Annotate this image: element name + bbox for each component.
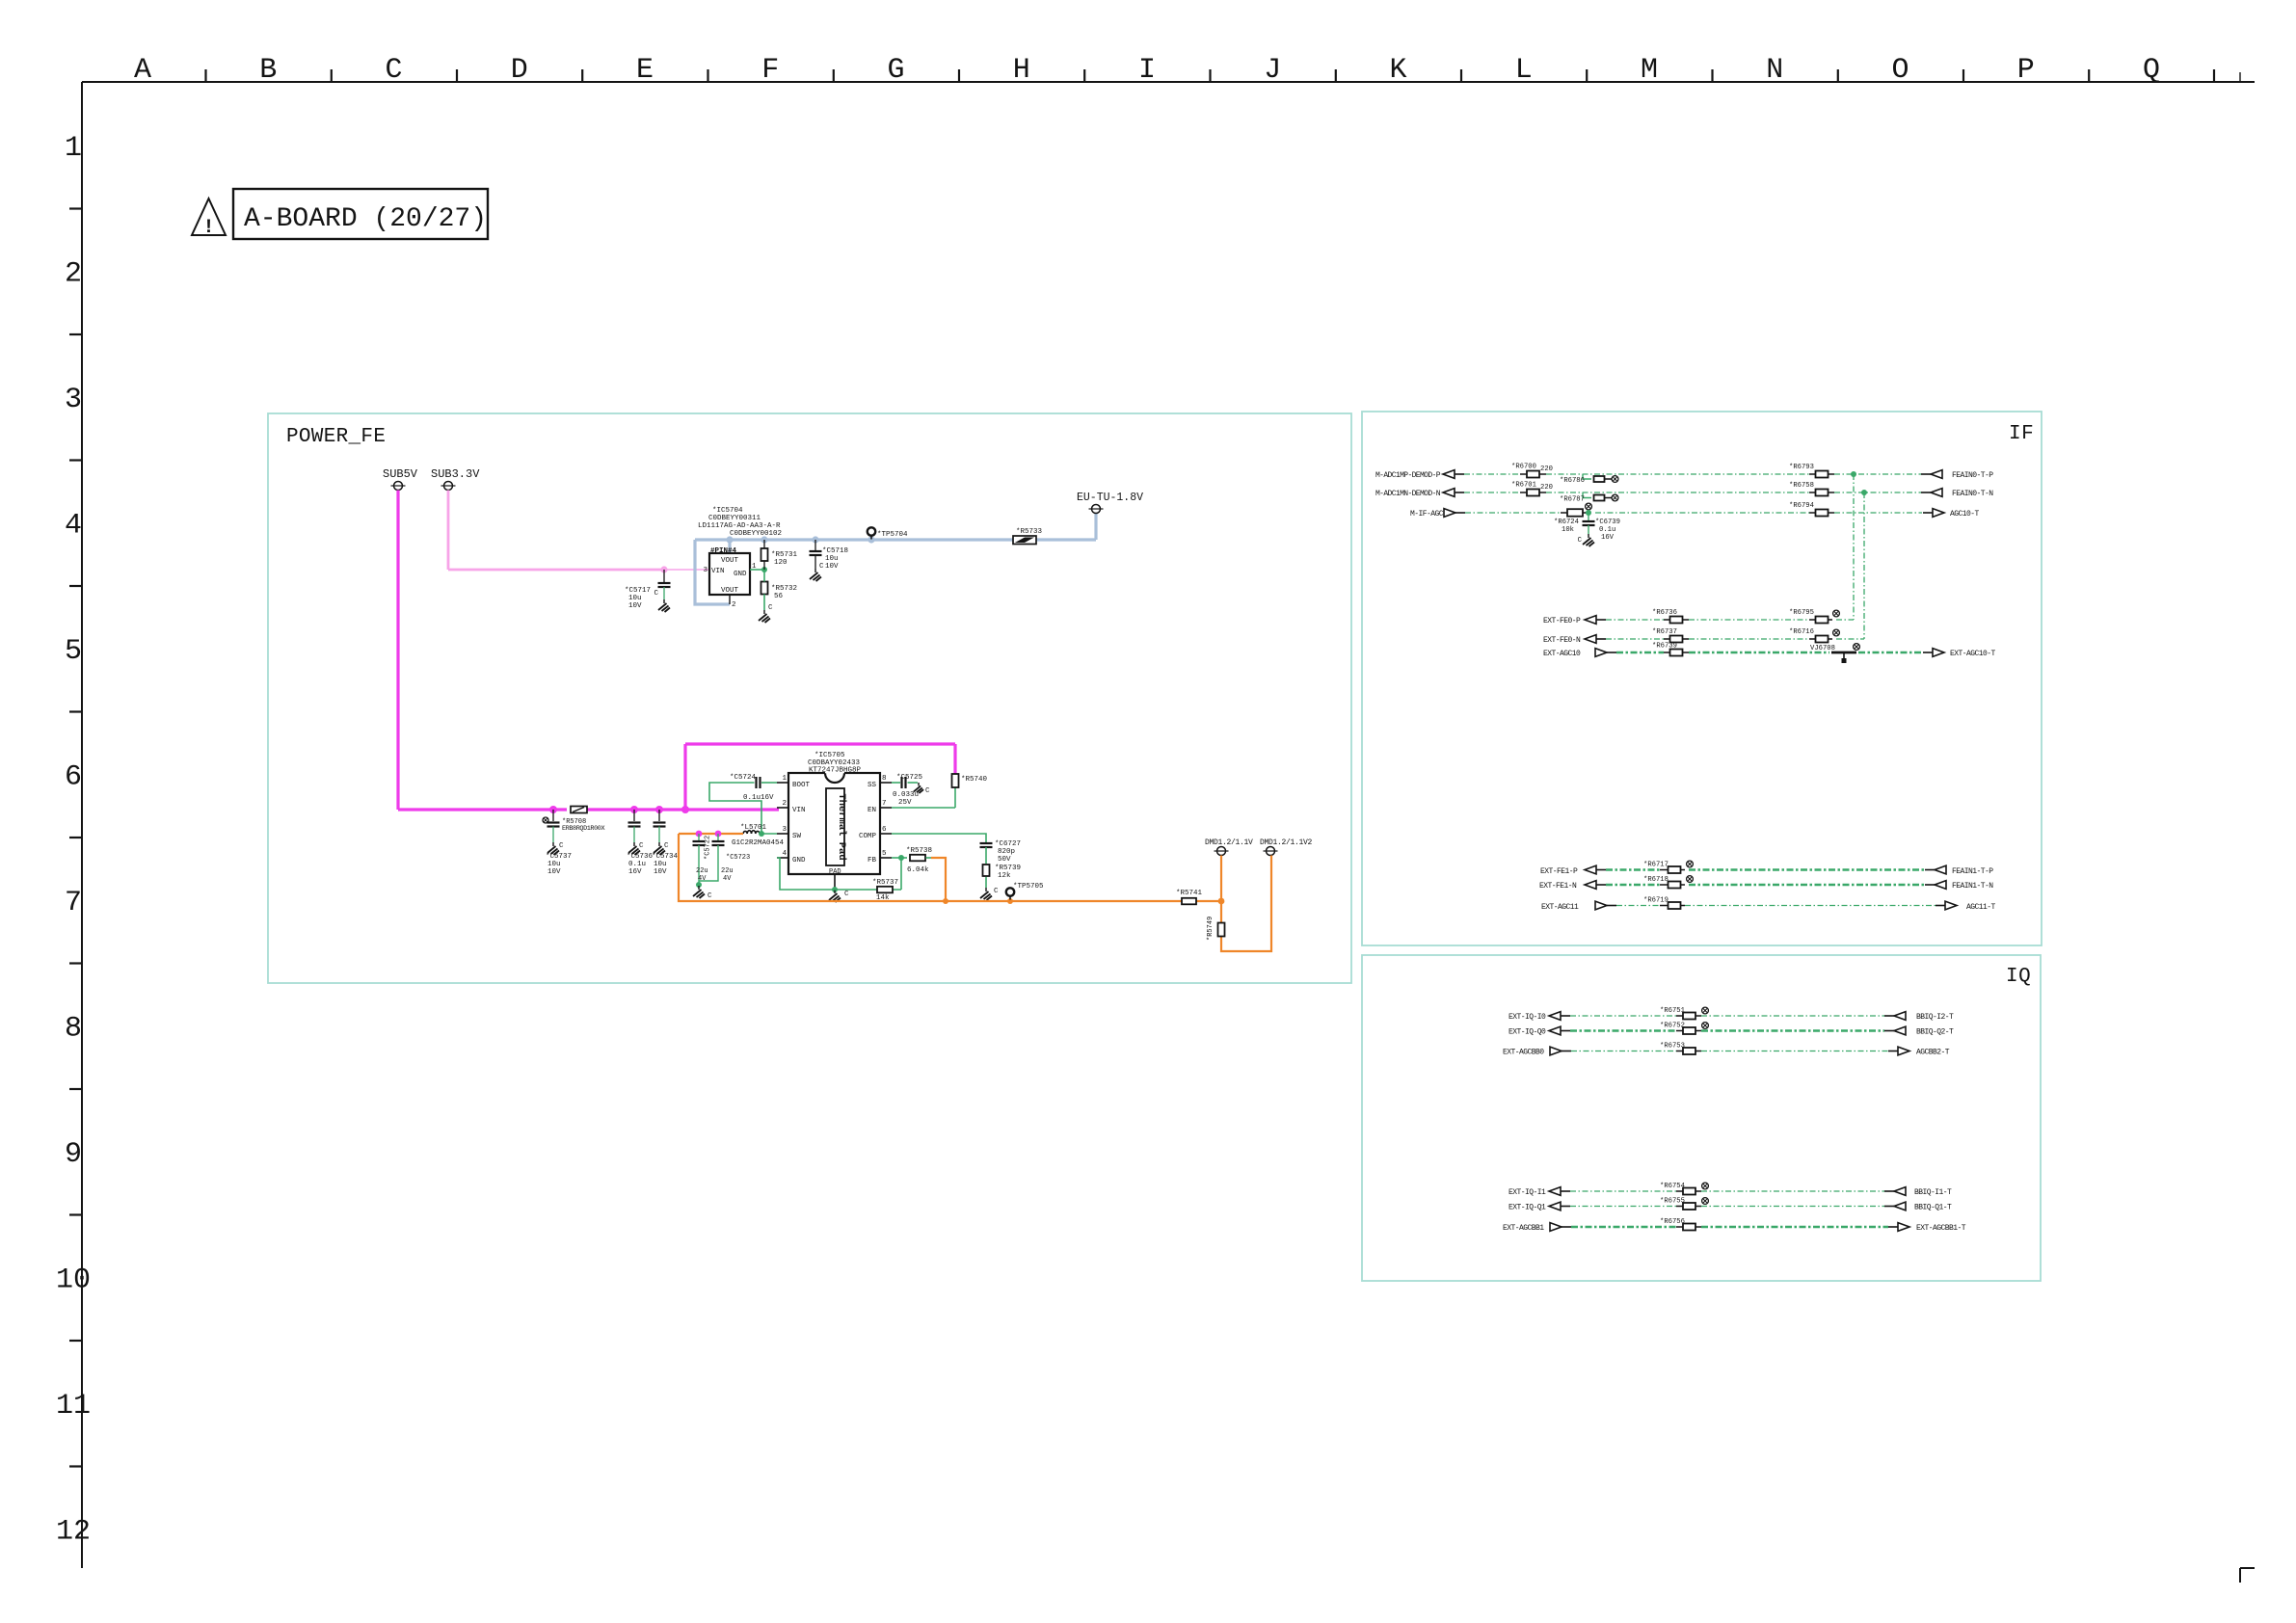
- svg-text:1: 1: [65, 132, 82, 165]
- svg-text:C: C: [639, 842, 644, 850]
- svg-text:0.1u16V: 0.1u16V: [743, 794, 774, 802]
- svg-text:*R6700: *R6700: [1511, 464, 1536, 471]
- svg-text:10k: 10k: [1562, 526, 1574, 534]
- svg-text:EXT-AGC11: EXT-AGC11: [1541, 903, 1579, 912]
- svg-text:*R5738: *R5738: [906, 847, 932, 855]
- svg-text:EXT-AGCBB0: EXT-AGCBB0: [1503, 1049, 1544, 1057]
- svg-text:50V: 50V: [998, 856, 1011, 864]
- svg-text:VIN: VIN: [711, 568, 725, 575]
- svg-text:EU-TU-1.8V: EU-TU-1.8V: [1077, 492, 1143, 504]
- svg-text:ERB8RQD1R00X: ERB8RQD1R00X: [562, 825, 604, 833]
- svg-text:3: 3: [65, 384, 82, 416]
- svg-text:*IC5705: *IC5705: [814, 752, 845, 759]
- svg-text:*R6786: *R6786: [1560, 477, 1585, 485]
- svg-text:COMP: COMP: [859, 833, 877, 840]
- svg-text:AGC10-T: AGC10-T: [1950, 510, 1980, 519]
- svg-text:GND: GND: [734, 571, 747, 578]
- svg-text:*R6753: *R6753: [1660, 1043, 1685, 1051]
- svg-text:DMD1.2/1.1V: DMD1.2/1.1V: [1205, 838, 1253, 847]
- svg-text:4: 4: [782, 850, 787, 858]
- svg-text:*C5722: *C5722: [705, 836, 712, 860]
- svg-text:4: 4: [65, 510, 82, 543]
- svg-text:EXT-FE0-N: EXT-FE0-N: [1543, 636, 1581, 645]
- svg-text:EXT-FE1-N: EXT-FE1-N: [1539, 882, 1577, 891]
- svg-text:SS: SS: [868, 782, 877, 789]
- svg-text:2: 2: [65, 258, 82, 291]
- svg-text:EXT-FE0-P: EXT-FE0-P: [1543, 617, 1581, 625]
- svg-text:5: 5: [882, 850, 887, 858]
- svg-text:EXT-AGCBB1-T: EXT-AGCBB1-T: [1916, 1224, 1966, 1233]
- svg-text:8: 8: [65, 1013, 82, 1046]
- svg-text:120: 120: [774, 559, 788, 567]
- svg-text:*C6727: *C6727: [995, 840, 1021, 848]
- svg-text:KT7247JBHG8P: KT7247JBHG8P: [809, 767, 862, 775]
- svg-text:*R6701: *R6701: [1511, 482, 1536, 490]
- svg-text:EXT-IQ-I1: EXT-IQ-I1: [1508, 1188, 1546, 1197]
- svg-text:10V: 10V: [547, 868, 561, 876]
- svg-text:A-BOARD (20/27): A-BOARD (20/27): [244, 204, 487, 234]
- svg-text:*R6716: *R6716: [1789, 628, 1814, 636]
- svg-text:G: G: [887, 54, 904, 87]
- svg-text:6: 6: [65, 761, 82, 794]
- svg-text:3: 3: [782, 826, 787, 834]
- svg-text:EXT-IQ-Q0: EXT-IQ-Q0: [1508, 1028, 1546, 1037]
- svg-text:EN: EN: [868, 807, 876, 814]
- svg-text:C: C: [559, 842, 564, 850]
- svg-text:FEAIN1-T-N: FEAIN1-T-N: [1952, 882, 1993, 891]
- svg-text:*R6795: *R6795: [1789, 609, 1814, 617]
- svg-text:*R6758: *R6758: [1789, 482, 1814, 490]
- svg-text:*L5701: *L5701: [740, 824, 767, 832]
- svg-text:*C5734: *C5734: [652, 853, 679, 861]
- svg-text:22u: 22u: [696, 867, 708, 875]
- svg-text:220: 220: [1540, 466, 1553, 473]
- svg-text:SUB5V: SUB5V: [383, 467, 418, 481]
- svg-text:VOUT: VOUT: [721, 587, 739, 595]
- svg-text:O: O: [1891, 54, 1909, 87]
- svg-text:L: L: [1515, 54, 1533, 87]
- svg-text:*R6755: *R6755: [1660, 1198, 1685, 1206]
- svg-text:2: 2: [732, 601, 736, 609]
- svg-text:*TP5704: *TP5704: [877, 531, 908, 539]
- svg-text:4V: 4V: [723, 875, 732, 883]
- svg-text:M: M: [1641, 54, 1658, 87]
- svg-text:6.04k: 6.04k: [907, 866, 929, 874]
- svg-text:D: D: [511, 54, 528, 87]
- svg-text:#PIN#4: #PIN#4: [710, 547, 737, 555]
- svg-text:C: C: [664, 842, 669, 850]
- svg-text:*R5737: *R5737: [872, 879, 898, 887]
- svg-text:IF: IF: [2009, 423, 2034, 445]
- svg-text:EXT-AGC10-T: EXT-AGC10-T: [1950, 650, 1996, 658]
- svg-text:10u: 10u: [825, 555, 839, 563]
- svg-text:EXT-AGC10: EXT-AGC10: [1543, 650, 1581, 658]
- svg-text:*C5717: *C5717: [625, 587, 651, 595]
- svg-text:POWER_FE: POWER_FE: [286, 426, 386, 448]
- svg-text:FB: FB: [868, 857, 877, 865]
- svg-text:10V: 10V: [654, 868, 667, 876]
- svg-text:*R6718: *R6718: [1643, 876, 1669, 884]
- svg-text:0.1u: 0.1u: [628, 861, 646, 868]
- svg-text:*C5723: *C5723: [726, 854, 750, 862]
- svg-text:*C5718: *C5718: [822, 547, 848, 555]
- svg-text:BBIQ-I2-T: BBIQ-I2-T: [1916, 1013, 1954, 1022]
- svg-text:Q: Q: [2143, 54, 2160, 87]
- svg-text:3: 3: [703, 567, 707, 574]
- svg-text:C: C: [654, 590, 658, 598]
- svg-text:10: 10: [56, 1264, 91, 1297]
- svg-text:10V: 10V: [628, 602, 642, 610]
- svg-text:*R6739: *R6739: [1652, 643, 1677, 651]
- svg-text:220: 220: [1540, 484, 1553, 492]
- svg-text:EXT-IQ-I0: EXT-IQ-I0: [1508, 1013, 1546, 1022]
- svg-text:*C6739: *C6739: [1595, 519, 1620, 526]
- svg-text:A: A: [134, 54, 151, 87]
- svg-text:F: F: [761, 54, 779, 87]
- svg-text:EXT-IQ-Q1: EXT-IQ-Q1: [1508, 1204, 1546, 1212]
- svg-text:*C5736: *C5736: [627, 853, 654, 861]
- svg-text:E: E: [636, 54, 654, 87]
- svg-text:*R6787: *R6787: [1560, 496, 1585, 504]
- svg-text:C: C: [844, 891, 849, 898]
- svg-text:N: N: [1766, 54, 1783, 87]
- svg-text:56: 56: [774, 593, 784, 600]
- svg-text:1: 1: [782, 775, 787, 783]
- svg-text:G1C2R2MA0454: G1C2R2MA0454: [732, 839, 785, 847]
- svg-text:M-IF-AGC: M-IF-AGC: [1410, 510, 1444, 519]
- svg-text:K: K: [1389, 54, 1406, 87]
- svg-text:P: P: [2017, 54, 2035, 87]
- svg-text:5: 5: [65, 635, 82, 668]
- svg-text:12: 12: [56, 1516, 91, 1549]
- svg-text:VJ6708: VJ6708: [1810, 645, 1835, 652]
- svg-text:16V: 16V: [628, 868, 642, 876]
- svg-text:7: 7: [882, 800, 887, 808]
- svg-text:*IC5704: *IC5704: [712, 507, 743, 515]
- svg-text:SUB3.3V: SUB3.3V: [431, 467, 480, 481]
- svg-text:C0DBEYY00311: C0DBEYY00311: [708, 515, 761, 522]
- svg-text:C: C: [925, 787, 930, 795]
- svg-text:FEAIN0-T-N: FEAIN0-T-N: [1952, 490, 1993, 498]
- svg-text:10u: 10u: [654, 861, 667, 868]
- svg-text:FEAIN1-T-P: FEAIN1-T-P: [1952, 867, 1993, 876]
- svg-text:FEAIN0-T-P: FEAIN0-T-P: [1952, 471, 1993, 480]
- svg-text:*R6736: *R6736: [1652, 609, 1677, 617]
- svg-text:H: H: [1013, 54, 1030, 87]
- svg-text:M-ADC1MN-DEMOD-N: M-ADC1MN-DEMOD-N: [1375, 490, 1441, 498]
- svg-text:*R6719: *R6719: [1643, 897, 1669, 905]
- svg-text:AGC11-T: AGC11-T: [1966, 903, 1996, 912]
- svg-text:VOUT: VOUT: [721, 557, 739, 565]
- svg-text:C: C: [994, 888, 999, 895]
- svg-text:C: C: [1578, 537, 1583, 545]
- svg-text:2: 2: [782, 800, 787, 808]
- svg-text:*R6756: *R6756: [1660, 1218, 1685, 1226]
- svg-text:IQ: IQ: [2006, 966, 2031, 988]
- svg-text:10V: 10V: [825, 563, 839, 571]
- svg-text:4V: 4V: [698, 875, 707, 883]
- svg-text:*R6793: *R6793: [1789, 464, 1814, 471]
- svg-text:0.1u: 0.1u: [1599, 526, 1615, 534]
- svg-text:I: I: [1138, 54, 1156, 87]
- svg-text:11: 11: [56, 1390, 91, 1423]
- svg-text:*R6737: *R6737: [1652, 628, 1677, 636]
- svg-text:M-ADC1MP-DEMOD-P: M-ADC1MP-DEMOD-P: [1375, 471, 1441, 480]
- svg-text:*R5739: *R5739: [995, 865, 1021, 872]
- svg-text:C: C: [385, 54, 402, 87]
- svg-text:10u: 10u: [547, 861, 561, 868]
- svg-text:*R5731: *R5731: [771, 551, 798, 559]
- svg-text:*R5740: *R5740: [961, 776, 988, 784]
- svg-text:22u: 22u: [721, 867, 734, 875]
- svg-text:*C5724: *C5724: [730, 774, 757, 782]
- svg-text:*R6717: *R6717: [1643, 862, 1669, 869]
- svg-text:10u: 10u: [628, 595, 642, 602]
- svg-text:*R5741: *R5741: [1176, 890, 1203, 897]
- svg-text:*R6752: *R6752: [1660, 1023, 1685, 1030]
- svg-text:12k: 12k: [998, 872, 1011, 880]
- svg-text:LD1117AG-AD-AA3-A-R: LD1117AG-AD-AA3-A-R: [698, 522, 781, 530]
- svg-text:EXT-AGCBB1: EXT-AGCBB1: [1503, 1224, 1544, 1233]
- svg-text:*R5733: *R5733: [1016, 528, 1043, 536]
- svg-text:C: C: [819, 563, 824, 571]
- svg-text:BBIQ-I1-T: BBIQ-I1-T: [1914, 1188, 1952, 1197]
- svg-text:8: 8: [882, 775, 887, 783]
- svg-text:7: 7: [65, 887, 82, 919]
- svg-text:25V: 25V: [898, 799, 912, 807]
- svg-text:GND: GND: [792, 857, 806, 865]
- svg-text:16V: 16V: [1601, 534, 1615, 542]
- svg-text:BOOT: BOOT: [792, 782, 811, 789]
- svg-text:DMD1.2/1.1V2: DMD1.2/1.1V2: [1260, 838, 1313, 847]
- svg-text:*R6724: *R6724: [1554, 519, 1579, 526]
- svg-text:C: C: [707, 892, 712, 900]
- svg-text:0.033u: 0.033u: [893, 791, 919, 799]
- svg-text:6: 6: [882, 826, 887, 834]
- svg-text:VIN: VIN: [792, 807, 806, 814]
- svg-text:*TP5705: *TP5705: [1013, 883, 1044, 891]
- svg-text:*R5732: *R5732: [771, 585, 797, 593]
- svg-text:!: !: [202, 217, 214, 239]
- svg-text:*R6794: *R6794: [1789, 502, 1814, 510]
- svg-text:*R6754: *R6754: [1660, 1183, 1685, 1190]
- svg-text:AGCBB2-T: AGCBB2-T: [1916, 1049, 1950, 1057]
- svg-text:BBIQ-Q1-T: BBIQ-Q1-T: [1914, 1204, 1952, 1212]
- svg-text:J: J: [1264, 54, 1281, 87]
- svg-text:*C5725: *C5725: [896, 774, 923, 782]
- svg-text:*C5737: *C5737: [546, 853, 572, 861]
- svg-text:820p: 820p: [998, 848, 1015, 856]
- svg-text:C: C: [768, 604, 773, 612]
- svg-text:B: B: [259, 54, 277, 87]
- svg-text:*R5749: *R5749: [1207, 917, 1215, 941]
- svg-text:EXT-FE1-P: EXT-FE1-P: [1540, 867, 1578, 876]
- svg-text:C0DBEYY00102: C0DBEYY00102: [730, 530, 782, 538]
- svg-text:Thermal Pad: Thermal Pad: [836, 793, 847, 860]
- svg-text:*R6751: *R6751: [1660, 1007, 1685, 1015]
- svg-text:BBIQ-Q2-T: BBIQ-Q2-T: [1916, 1028, 1954, 1037]
- svg-text:9: 9: [65, 1138, 82, 1171]
- svg-text:SW: SW: [792, 833, 802, 840]
